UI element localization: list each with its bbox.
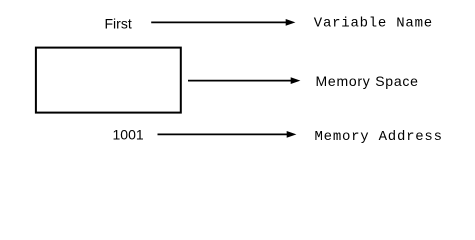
- svg-text:First: First: [105, 16, 132, 32]
- middle arrowhead: [291, 77, 301, 84]
- bottom arrowhead: [287, 131, 297, 138]
- svg-text:Memory Address: Memory Address: [315, 129, 443, 145]
- wire: bottom arrow shaft: [158, 133, 288, 135]
- wire: top arrow shaft: [151, 21, 286, 23]
- svg-text:Memory Space: Memory Space: [316, 73, 419, 89]
- svg-text:Variable Name: Variable Name: [314, 16, 433, 32]
- memory box (rectangle): [36, 48, 181, 113]
- svg-text:1001: 1001: [113, 127, 144, 143]
- top arrowhead: [286, 19, 296, 26]
- wire: middle arrow shaft: [188, 80, 292, 82]
